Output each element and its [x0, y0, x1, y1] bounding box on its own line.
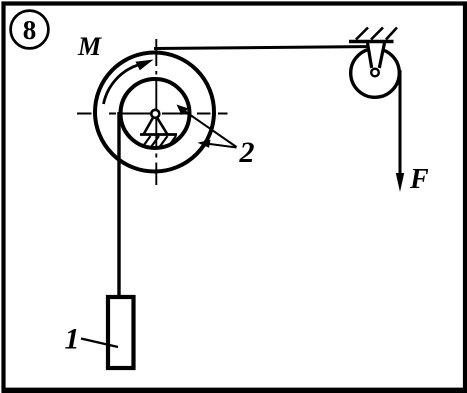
svg-text:2: 2 [239, 136, 255, 169]
svg-text:M: M [77, 32, 102, 61]
svg-text:F: F [409, 164, 429, 195]
moment arrow arc M [104, 65, 140, 105]
svg-text:1: 1 [65, 323, 80, 356]
small pulley circle [351, 49, 400, 98]
leader arrow to inner circle [181, 109, 237, 148]
pulley inner circle [121, 79, 190, 148]
svg-text:8: 8 [23, 15, 37, 45]
force F arrowhead [396, 173, 404, 192]
ceiling line [349, 40, 394, 44]
centerline vertical [155, 39, 157, 185]
centerline horizontal [77, 113, 228, 115]
pivot pin [151, 110, 159, 118]
block 1 [108, 297, 134, 368]
leader line to block [81, 339, 118, 348]
rope top horizontal [154, 47, 377, 49]
bracket body [366, 44, 386, 69]
pivot ground hatching [143, 136, 177, 147]
small pulley pin [371, 69, 379, 77]
ceiling hatching [356, 28, 397, 40]
rope right vertical [399, 70, 402, 176]
figure number badge circle [11, 11, 49, 49]
rope left vertical to block [117, 112, 120, 296]
moment arrowhead [136, 60, 154, 71]
border frame bottom edge [2, 388, 467, 393]
leader arrow to outer circle [206, 144, 237, 148]
pivot triangle [144, 115, 168, 135]
bracket left arm [368, 43, 372, 68]
pivot ground line [140, 133, 177, 136]
pulley outer circle [95, 53, 214, 172]
bracket right arm [379, 43, 384, 68]
